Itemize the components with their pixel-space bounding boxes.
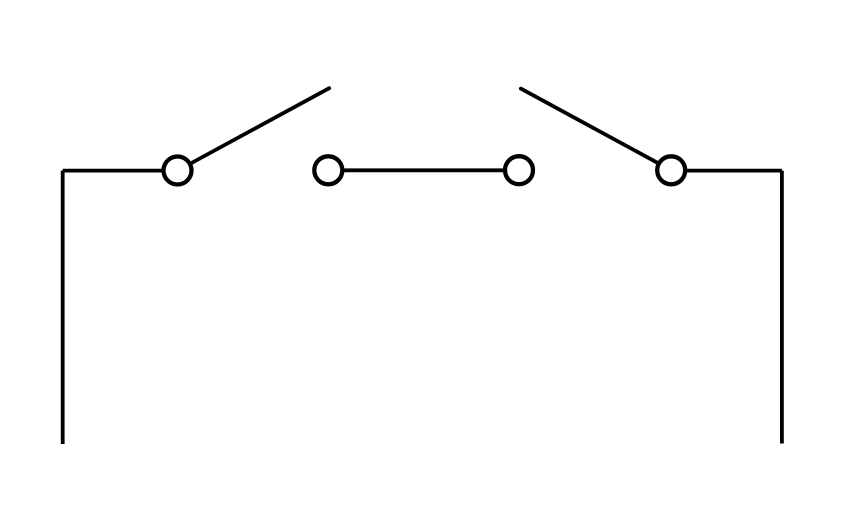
wire right vertical (780, 171, 784, 444)
wire middle (344, 168, 503, 172)
wire left vertical (61, 171, 65, 444)
switch SW1 lever (192, 88, 330, 163)
switch SW2 terminal circle left (505, 156, 533, 184)
wire right horizontal (687, 169, 782, 173)
switch SW2 terminal circle right (657, 156, 685, 184)
switch SW1 terminal circle left (164, 157, 192, 185)
wire left horizontal (63, 169, 164, 173)
switch SW1 terminal circle right (314, 156, 342, 184)
switch SW2 lever (521, 89, 658, 163)
